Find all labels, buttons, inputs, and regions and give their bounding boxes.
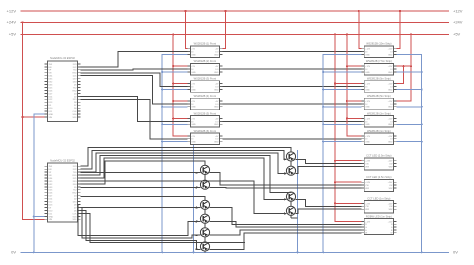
svg-text:WS2812B (1m Strip): WS2812B (1m Strip) [367, 129, 391, 133]
transistor Q6 [200, 242, 209, 251]
svg-text:VIN: VIN [49, 117, 53, 119]
svg-text:+12V: +12V [365, 66, 370, 68]
wire Q3 collector to RGBW pin 2 [210, 208, 362, 225]
signal wire U2 to Q3 collector [81, 196, 206, 200]
svg-text:+12V: +12V [453, 8, 463, 13]
svg-text:GND: GND [214, 124, 219, 126]
LED pixel module M3 WS2812B (3) Front [187, 77, 222, 93]
wire GND from U1/U2 to 0V rail [33, 114, 45, 253]
RGBW LED strip module [361, 214, 396, 234]
svg-text:DO: DO [215, 121, 218, 123]
svg-text:WS2812B (4) Front: WS2812B (4) Front [194, 94, 217, 98]
svg-text:GND: GND [214, 72, 219, 74]
LED strip module S5 WS2812B (2m Strip) [361, 111, 396, 127]
svg-text:W: W [391, 233, 393, 235]
svg-text:WW: WW [365, 209, 369, 211]
svg-text:+12V: +12V [365, 136, 370, 138]
signal wire U2 pin15 via bottom bus [81, 208, 201, 239]
LED pixel module M1 WS2812B (1) Front [187, 42, 222, 58]
wire +12V to strip S1 right [396, 10, 401, 49]
svg-text:WS2812B (5m Strip): WS2812B (5m Strip) [367, 94, 391, 98]
data wire U1 to M1 DI [81, 52, 188, 67]
LED pixel module M6 WS2812B (6) Front [187, 129, 222, 145]
svg-text:+12V: +12V [365, 221, 370, 223]
svg-text:GND: GND [365, 54, 370, 56]
svg-text:GND: GND [191, 107, 196, 109]
wire +5V bus to modules M2-M6 [172, 33, 187, 136]
svg-text:DO: DO [215, 69, 218, 71]
LED pixel module M4 WS2812B (4) Front [187, 94, 222, 110]
svg-text:+5V: +5V [453, 32, 461, 37]
svg-text:WS2812B (5m Strip): WS2812B (5m Strip) [367, 77, 391, 81]
svg-text:CW: CW [389, 185, 392, 187]
svg-text:CW: CW [365, 164, 368, 166]
svg-text:WS2812B (10m Strip): WS2812B (10m Strip) [366, 42, 391, 46]
svg-text:WW: WW [389, 209, 393, 211]
svg-text:WW: WW [365, 188, 369, 190]
svg-text:+24V: +24V [7, 20, 17, 25]
svg-text:WS2812B (2) Front: WS2812B (2) Front [194, 59, 217, 63]
svg-text:GND: GND [388, 124, 393, 126]
signal wire U2 to Q3 base [81, 207, 201, 209]
signal wire U2 pin6 to Q10 base [81, 181, 287, 214]
data wire U1 to M2 DI [81, 68, 188, 71]
wire Q10 collector to CCT3 WW [296, 209, 362, 213]
signal wire U2 pin2 to transistor column 2 [81, 150, 287, 169]
GND bus right of strips S1-S6 [396, 55, 422, 254]
transistor Q8 [286, 166, 295, 175]
power rail +24V [7, 20, 463, 25]
svg-text:RGBW LED (1m Strip): RGBW LED (1m Strip) [366, 214, 392, 218]
svg-text:CLK: CLK [72, 111, 77, 113]
svg-text:DO: DO [215, 139, 218, 141]
wire +12V to module M1 right [222, 10, 226, 49]
svg-text:NodeMCU-32 ESP32: NodeMCU-32 ESP32 [50, 56, 75, 60]
wire +5V right feeder to S2 S3 S4 [396, 33, 412, 101]
ground rail 0V [11, 250, 458, 255]
data wire U1 to M4 DI [81, 76, 188, 104]
CCT LED strip module C3 CCT LED (1m Strip) [361, 196, 396, 212]
svg-text:VN: VN [49, 73, 52, 75]
svg-text:CW: CW [365, 206, 368, 208]
svg-text:+24V: +24V [453, 20, 463, 25]
svg-text:+12V: +12V [365, 49, 370, 51]
svg-text:CCT LED (1m Strip): CCT LED (1m Strip) [367, 196, 390, 200]
wire Q9 collector to CCT3 CW [296, 199, 362, 206]
power rail +12V [7, 8, 463, 13]
svg-text:WS2812B (3) Front: WS2812B (3) Front [194, 77, 217, 81]
wire Q5 collector to RGBW pin 4 [210, 230, 362, 235]
data wire M3 DO to S3 DI [222, 85, 361, 87]
wire +5V right feeder to S3 [396, 65, 404, 84]
transistor Q7 [286, 152, 295, 161]
svg-text:0V: 0V [453, 250, 458, 255]
LED strip module S6 WS2812B (1m Strip) [361, 129, 396, 145]
svg-text:WS2812B (2m Strip): WS2812B (2m Strip) [367, 111, 391, 115]
svg-text:GND: GND [191, 54, 196, 56]
svg-text:+12V: +12V [7, 8, 17, 13]
svg-text:0V: 0V [11, 250, 16, 255]
svg-text:GND: GND [191, 124, 196, 126]
svg-text:WS2812B (7.5m Strip): WS2812B (7.5m Strip) [366, 59, 392, 63]
data wire M2 DO to S2 DI [222, 68, 361, 70]
IC U2 NodeMCU ESP32 [45, 158, 81, 222]
wire +12V to strip S1 left [358, 10, 362, 49]
signal wire U2 pin1 to transistor column 2 [81, 148, 292, 167]
GND bus for modules M1-M6 [161, 55, 187, 254]
svg-text:+12V: +12V [388, 49, 393, 51]
LED strip module S3 WS2812B (5m Strip) [361, 77, 396, 93]
svg-text:+24V: +24V [365, 203, 370, 205]
svg-text:DO: DO [215, 104, 218, 106]
wire +5V feeder A to strip S3, CCT strips and RGBW [334, 33, 361, 221]
svg-text:GND: GND [49, 216, 54, 218]
svg-text:+12V: +12V [365, 118, 370, 120]
data wire M4 DO to S4 DI [222, 103, 361, 105]
svg-text:GND: GND [214, 142, 219, 144]
transistor Q4 [200, 214, 209, 223]
svg-text:GND: GND [365, 124, 370, 126]
svg-text:W: W [365, 233, 367, 235]
svg-text:+12V: +12V [365, 83, 370, 85]
transistor Q9 [286, 192, 295, 201]
svg-text:CLK: CLK [72, 213, 77, 215]
svg-text:WW: WW [389, 166, 393, 168]
transistor Q3 [200, 200, 209, 209]
LED strip module S2 WS2812B (7.5m Strip) [361, 59, 396, 75]
svg-text:CCT LED (2.5m Strip): CCT LED (2.5m Strip) [366, 154, 391, 158]
svg-text:WW: WW [365, 166, 369, 168]
LED pixel module M5 WS2812B (5) Front [187, 111, 222, 127]
LED strip module S1 WS2812B (10m Strip) [361, 42, 396, 58]
svg-text:GND: GND [191, 89, 196, 91]
wire transistor chain links column 2 [290, 161, 292, 218]
data wire U1 to M5 DI [81, 96, 188, 121]
svg-text:EN: EN [49, 169, 52, 171]
svg-text:WS2812B (6) Front: WS2812B (6) Front [194, 129, 217, 133]
data wire U1 to M6 DI [81, 99, 188, 139]
svg-text:GND: GND [365, 142, 370, 144]
signal wire U2 pin7 to Q1 collector [81, 161, 206, 184]
svg-text:CCT LED (2.5m Strip): CCT LED (2.5m Strip) [366, 175, 391, 179]
svg-text:+12V: +12V [388, 66, 393, 68]
svg-text:CW: CW [389, 206, 392, 208]
svg-text:WW: WW [389, 188, 393, 190]
svg-text:GND: GND [388, 89, 393, 91]
svg-text:+12V: +12V [388, 136, 393, 138]
signal wire U2 pin16 via bottom bus [81, 210, 201, 249]
svg-text:GND: GND [388, 107, 393, 109]
wire Q6 collector to RGBW pin 5 [210, 233, 362, 249]
GND bus at transistor column 2 [284, 150, 299, 253]
transistor Q1 [200, 165, 209, 174]
svg-text:DO: DO [215, 86, 218, 88]
data wire M5 DO to S5 DI [222, 120, 361, 122]
wire +5V feeder B to strips S2 S4 S5 S6 [346, 33, 362, 136]
IC U1 NodeMCU ESP32 [45, 56, 81, 121]
transistor Q2 [200, 180, 209, 189]
svg-text:VN: VN [49, 175, 52, 177]
svg-text:GND: GND [388, 54, 393, 56]
wire +12V to module M1 left [185, 10, 188, 49]
svg-text:GND: GND [214, 89, 219, 91]
signal wire U2 pin14 via bottom bus [78, 205, 200, 236]
wire Q8 collector to CCT1 WW [296, 167, 362, 174]
svg-text:+24V: +24V [388, 182, 393, 184]
wire +24V feed to U1 and U2 VIN [21, 21, 44, 219]
svg-text:GND: GND [191, 72, 196, 74]
wire transistor chain links column 1 [204, 175, 206, 253]
svg-text:GND: GND [49, 114, 54, 116]
signal wire U2 pin17 via bottom bus [81, 213, 246, 242]
wire Q4 collector to RGBW pin 3 [210, 222, 362, 228]
wire Q2 collector to CCT2 WW [210, 187, 362, 190]
CCT LED strip module C1 CCT LED (2.5m Strip) [361, 154, 396, 170]
svg-text:VIN: VIN [49, 219, 53, 221]
signal wire U2 pin4 to transistor column 2 [81, 156, 292, 193]
signal wire U2 pin5 to Q9 base [81, 158, 287, 200]
GND bus left of strips S1-S6 [322, 55, 361, 254]
data wire U1 to M3 DI [81, 73, 188, 87]
svg-text:GND: GND [214, 54, 219, 56]
svg-text:+24V: +24V [388, 161, 393, 163]
signal wire U2 to Q1 base [81, 172, 201, 174]
data wire M1 DO to S1 DI [222, 51, 361, 53]
svg-text:GND: GND [388, 142, 393, 144]
svg-text:CW: CW [365, 185, 368, 187]
wire Q1 collector to CCT2 CW [210, 173, 362, 185]
svg-text:+24V: +24V [365, 161, 370, 163]
svg-text:+12V: +12V [388, 101, 393, 103]
svg-text:GND: GND [365, 72, 370, 74]
signal wire U2 pin3 to transistor column 2 [81, 153, 287, 174]
data wire M6 DO to S6 DI [222, 138, 361, 140]
wire Q7 collector to CCT1 CW [296, 159, 362, 163]
svg-text:EN: EN [49, 67, 52, 69]
CCT LED strip module C2 CCT LED (2.5m Strip) [361, 175, 396, 191]
power rail +5V [9, 32, 461, 37]
signal wire U2 to Q2 base [81, 187, 201, 189]
LED pixel module M2 WS2812B (2) Front [187, 59, 222, 75]
svg-text:GND: GND [214, 107, 219, 109]
svg-text:+5V: +5V [9, 32, 17, 37]
svg-text:GND: GND [388, 72, 393, 74]
svg-text:GND: GND [365, 107, 370, 109]
svg-text:+12V: +12V [365, 101, 370, 103]
svg-text:+12V: +12V [388, 83, 393, 85]
svg-text:NodeMCU-32 ESP32: NodeMCU-32 ESP32 [50, 158, 75, 162]
svg-text:+24V: +24V [365, 182, 370, 184]
svg-text:CW: CW [389, 164, 392, 166]
LED strip module S4 WS2812B (5m Strip) [361, 94, 396, 110]
svg-text:WS2812B (1) Front: WS2812B (1) Front [194, 42, 217, 46]
svg-text:+24V: +24V [388, 203, 393, 205]
svg-text:+12V: +12V [388, 221, 393, 223]
transistor Q10 [286, 206, 295, 215]
svg-text:GND: GND [365, 89, 370, 91]
transistor Q5 [200, 228, 209, 237]
svg-text:WS2812B (5) Front: WS2812B (5) Front [194, 111, 217, 115]
svg-text:GND: GND [191, 142, 196, 144]
svg-text:DO: DO [215, 52, 218, 54]
GND bus at transistor column 1 [192, 145, 197, 253]
svg-text:+12V: +12V [388, 118, 393, 120]
